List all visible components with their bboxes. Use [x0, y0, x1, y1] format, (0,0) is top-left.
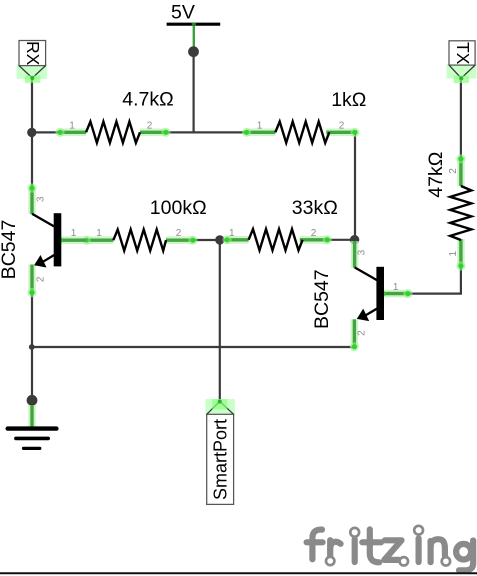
wire node A to Q1 collector [31, 132, 33, 188]
svg-text:1: 1 [393, 282, 399, 293]
svg-text:5V: 5V [171, 2, 195, 24]
junction dot node B [215, 235, 224, 244]
logo pad rings [326, 526, 450, 566]
svg-text:2: 2 [311, 228, 317, 239]
svg-text:2: 2 [357, 330, 368, 336]
svg-text:1: 1 [71, 228, 77, 239]
svg-text:2: 2 [36, 276, 47, 282]
svg-text:47kΩ: 47kΩ [425, 152, 447, 198]
svg-text:1kΩ: 1kΩ [331, 89, 366, 111]
power symbol 5V [167, 2, 221, 48]
wire R5 pin2 to TX [460, 78, 462, 159]
junction dot ground [27, 395, 38, 406]
svg-text:SmartPort: SmartPort [211, 419, 231, 500]
resistor R3 100k leads [81, 236, 197, 245]
wire R1 pin2 to R2 pin1 [166, 131, 247, 133]
resistor R5 47k leads [456, 154, 465, 270]
fritzing logo [307, 529, 474, 570]
svg-text:2: 2 [339, 120, 345, 131]
junction dot bottom left [29, 344, 35, 350]
svg-text:4.7kΩ: 4.7kΩ [122, 88, 173, 110]
svg-text:1: 1 [229, 228, 235, 239]
wire 5V to top rail [193, 51, 195, 132]
junction dot node C [350, 235, 359, 244]
transistor Q1 BC547 [27, 183, 86, 297]
wire node A to R1 pin1 [32, 131, 61, 133]
svg-text:2: 2 [176, 228, 182, 239]
junction dot 5V [188, 46, 199, 57]
svg-text:TX: TX [453, 42, 473, 65]
resistor R5 47k body [450, 186, 471, 240]
svg-text:BC547: BC547 [311, 269, 333, 329]
transistor Q2 BC547 [350, 241, 413, 351]
resistor R2 1k leads [242, 128, 360, 137]
wire node B to SmartPort [219, 240, 221, 401]
bottom border line [0, 572, 477, 574]
wire R4 pin2 to node C [327, 239, 355, 241]
svg-text:3: 3 [36, 196, 47, 202]
wire Q1 emitter to ground [31, 292, 33, 401]
wire bottom rail [32, 346, 354, 348]
wire R2 pin2 down to node C [354, 132, 356, 240]
svg-text:2: 2 [448, 168, 459, 174]
resistor R4 33k leads [222, 235, 332, 244]
wire Q2 base to R5 [408, 267, 461, 294]
wire RX to node A [31, 79, 33, 132]
junction dot node A [27, 128, 36, 137]
svg-text:BC547: BC547 [0, 220, 20, 280]
ground symbol [8, 405, 57, 448]
svg-text:3: 3 [357, 249, 368, 255]
connector SmartPort [206, 399, 235, 504]
svg-text:2: 2 [147, 120, 153, 131]
svg-text:RX: RX [23, 41, 43, 66]
resistor R1 4.7k leads [55, 128, 170, 137]
connector RX [17, 41, 47, 83]
svg-text:33kΩ: 33kΩ [292, 197, 338, 219]
resistor R2 1k body [275, 122, 329, 143]
resistor R3 100k body [113, 230, 166, 251]
connector TX [447, 41, 477, 83]
svg-text:1: 1 [257, 120, 263, 131]
svg-text:1: 1 [448, 250, 459, 256]
resistor R1 4.7k body [86, 122, 140, 143]
svg-text:1: 1 [69, 120, 75, 131]
svg-text:1: 1 [96, 228, 102, 239]
resistor R4 33k body [249, 229, 303, 250]
wire R3 pin2 to node B [193, 239, 227, 241]
svg-text:100kΩ: 100kΩ [150, 197, 207, 219]
